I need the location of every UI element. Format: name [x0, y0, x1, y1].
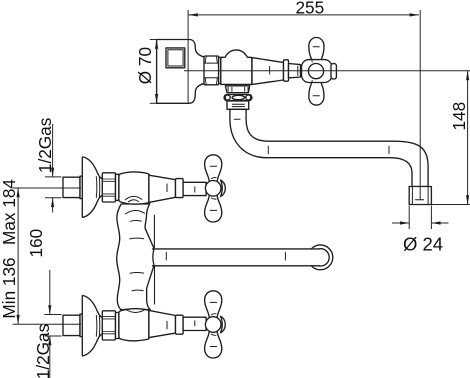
- arrow dim255 right: [410, 13, 419, 16]
- front view: spout boss edges: [153, 215, 155, 304]
- dim Ø24 extension left: [408, 206, 410, 230]
- front view lower: inlet stub 1/2Gas: [63, 315, 80, 335]
- svg-text:160: 160: [26, 229, 46, 258]
- front view: center extension line upper: [13, 187, 82, 189]
- front view upper: wall flange: [82, 157, 103, 217]
- arrow dim148 top: [466, 71, 469, 80]
- arrow dimØ70 bottom: [155, 94, 158, 103]
- front view lower: stem: [183, 317, 206, 330]
- dim 1/2Gas lower line above: [49, 270, 51, 315]
- arrow dim1/2Gas upper-bottom: [51, 198, 54, 207]
- dim 160/max/min line: [17, 188, 19, 324]
- top view: bead ring: [224, 95, 252, 101]
- arrow dim255 left: [189, 13, 198, 16]
- arrow dimØ24 left: [400, 221, 409, 224]
- front view upper: stem: [183, 182, 206, 195]
- dim 1/2Gas lower extension bottom: [44, 335, 61, 337]
- top view: lower collar: [227, 101, 249, 109]
- front view lower: hex nut: [102, 311, 115, 340]
- top view: handle hub circle: [308, 64, 323, 79]
- front view: center extension line lower: [13, 323, 82, 325]
- dim Ø24 line right: [431, 222, 448, 224]
- centerline top view axis: [184, 70, 470, 72]
- dim 1/2Gas upper extension bottom: [45, 197, 62, 199]
- front view lower: valve body barrel: [119, 309, 149, 341]
- front view lower: ring: [176, 315, 184, 334]
- front view lower: cone: [149, 310, 176, 337]
- top view: handle bottom lobe: [309, 81, 324, 105]
- front view: spout tip outer ring: [311, 245, 332, 270]
- svg-text:Ø 70: Ø 70: [135, 47, 155, 84]
- dim 255 extension left: [187, 10, 189, 103]
- svg-text:Max 184: Max 184: [0, 179, 19, 245]
- arrow dim160 bottom: [17, 315, 20, 324]
- arrow dim160 top: [17, 188, 20, 197]
- dim 255 line: [189, 14, 419, 16]
- front view: column dashes and ripples: [130, 221, 144, 291]
- dim 1/2Gas lower extension top: [44, 314, 61, 316]
- dim Ø70 extension top: [150, 39, 157, 41]
- dim 148 extension bottom: [432, 204, 470, 206]
- front view upper: inlet stub 1/2Gas: [63, 177, 80, 197]
- front view: spout root arc: [153, 249, 154, 266]
- top view: handle stem: [289, 64, 301, 78]
- top view: aerator outlet Ø24: [409, 187, 431, 205]
- front view upper: washer: [116, 174, 119, 200]
- front view upper: ring: [176, 179, 184, 198]
- front view: spout tube fill: [152, 249, 311, 265]
- top view: small joint ring: [219, 57, 221, 83]
- dim Ø24 extension right: [430, 206, 432, 230]
- svg-text:Min 136: Min 136: [0, 257, 19, 318]
- front view lower: handle cross: [205, 331, 222, 358]
- dim Ø24 line left: [392, 222, 409, 224]
- top view: wall union square: [166, 48, 185, 68]
- dim 1/2Gas upper line below: [52, 198, 54, 213]
- top view: handle right cap: [331, 64, 336, 79]
- front view lower: washer: [116, 313, 119, 339]
- arrow dim1/2Gas upper-top: [51, 168, 54, 177]
- front view: spout tube walls: [153, 249, 320, 266]
- top view: handle top lobe: [309, 38, 324, 62]
- svg-text:1/2Gas: 1/2Gas: [35, 118, 55, 173]
- arrow dim148 bottom: [466, 195, 469, 204]
- front view upper: cone: [149, 175, 176, 202]
- svg-text:255: 255: [295, 0, 324, 18]
- dim 148 line: [467, 71, 469, 205]
- front view: central column vase: [117, 204, 154, 310]
- dim 1/2Gas upper line above: [52, 124, 54, 177]
- arrow dim1/2Gas lower-top: [48, 305, 51, 314]
- top view: collar under valve: [225, 86, 249, 93]
- top view: spout pipe S-curve down and right, outlet down: [230, 109, 428, 186]
- arrow dimØ24 right: [431, 221, 440, 224]
- top view: wall flange Ø70: [157, 40, 205, 104]
- svg-text:Ø 24: Ø 24: [403, 233, 443, 254]
- top view: handle hub blob: [302, 60, 332, 83]
- front view: spout tip inner ring: [319, 249, 329, 266]
- front view upper: handle cross: [205, 155, 222, 182]
- top view: valve body with dome: [221, 50, 252, 85]
- front view lower assembly (mirror of upper about y=256.4): [63, 291, 225, 358]
- dim 255 extension right: [419, 10, 421, 200]
- arrow dimØ70 top: [155, 40, 158, 49]
- arrow dim1/2Gas lower-bottom: [48, 336, 51, 345]
- front view upper: valve body barrel: [119, 172, 149, 204]
- svg-text:148: 148: [449, 102, 469, 131]
- front view lower: wall flange: [82, 295, 103, 355]
- top view: cap ring: [284, 60, 289, 81]
- top view: hex nut: [204, 56, 219, 85]
- dim 1/2Gas lower line below: [49, 336, 51, 378]
- dim Ø70 extension bottom: [150, 102, 157, 104]
- dim 1/2Gas upper extension top: [45, 176, 62, 178]
- dim Ø70 line: [156, 40, 158, 104]
- top view: lobe dashes: [313, 47, 319, 96]
- top view: cone toward handle: [252, 58, 284, 85]
- svg-text:1/2Gas: 1/2Gas: [33, 324, 53, 378]
- front view lower: washer at wall: [80, 314, 83, 336]
- front view upper: hex nut: [102, 173, 115, 202]
